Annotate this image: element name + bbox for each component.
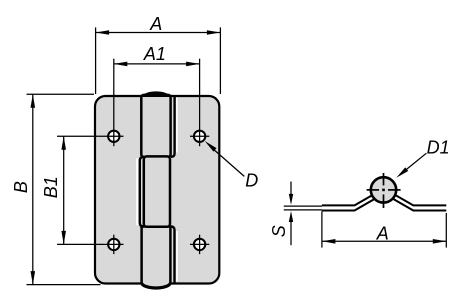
svg-text:B1: B1 — [41, 176, 61, 198]
svg-text:A: A — [376, 223, 389, 243]
svg-text:S: S — [269, 225, 289, 237]
svg-text:D: D — [245, 171, 258, 191]
svg-text:A: A — [149, 14, 162, 34]
svg-text:D1: D1 — [427, 137, 450, 157]
svg-text:B: B — [11, 181, 31, 193]
svg-text:A1: A1 — [143, 44, 166, 64]
